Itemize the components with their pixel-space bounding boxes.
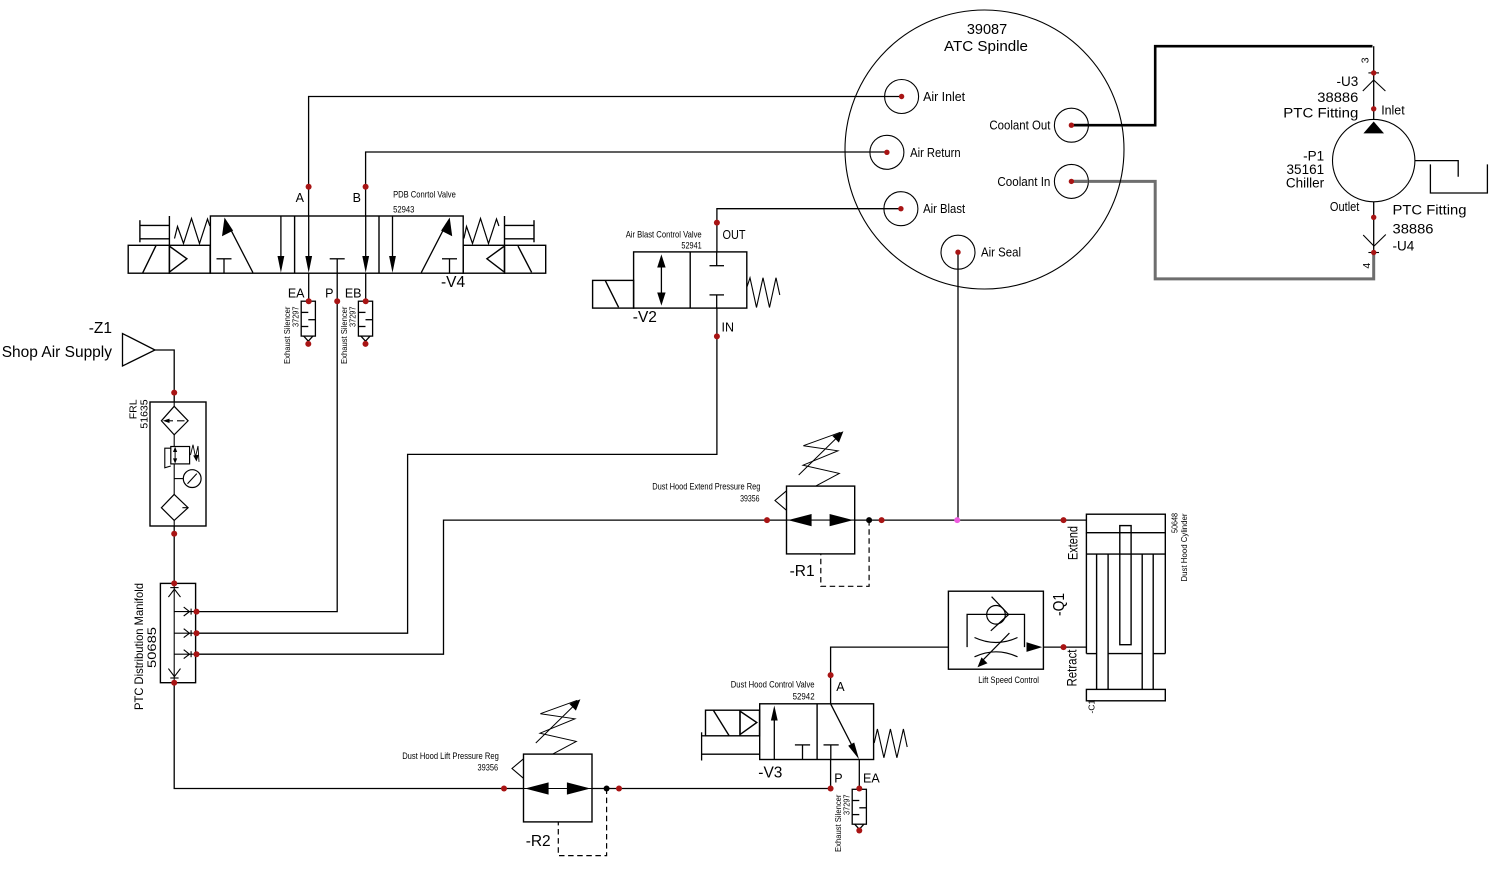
node cylinder Retract <box>1061 644 1067 650</box>
svg-text:Dust Hood Control Valve: Dust Hood Control Valve <box>731 680 815 691</box>
junction dot R2 pilot tap (black) <box>604 786 610 792</box>
valve -V4 right spring <box>464 219 499 244</box>
wire R1 outlet to cylinder Extend port <box>855 519 1087 521</box>
cylinder inner sleeve bottom <box>1108 653 1142 655</box>
wire R1 pilot dashed feedback <box>821 520 869 586</box>
svg-text:P: P <box>834 772 842 786</box>
node Coolant In port <box>1069 179 1074 184</box>
cylinder hood plate -C1 <box>1086 689 1165 700</box>
ATC spindle circle 39087 <box>845 10 1124 289</box>
valve -V4 left box flow paths <box>217 216 285 273</box>
chiller right heat exchanger <box>1415 161 1488 193</box>
cylinder guide legs <box>1096 554 1098 689</box>
svg-text:PTC Fitting: PTC Fitting <box>1283 106 1358 121</box>
svg-text:Inlet: Inlet <box>1381 104 1405 118</box>
label PTC Distribution Manifold 50685 <box>132 583 159 710</box>
valve -V4 right box flow paths <box>389 216 457 273</box>
node FRL outlet <box>171 531 177 537</box>
svg-text:ATC Spindle: ATC Spindle <box>944 39 1028 55</box>
node supply dot above FRL <box>171 390 177 396</box>
svg-text:EB: EB <box>345 287 362 301</box>
wire coolant out thick black: Coolant Out to chiller inlet <box>1071 46 1372 125</box>
node R1 outlet <box>879 517 885 523</box>
svg-text:P: P <box>325 287 333 301</box>
valve -V4 left manual override <box>140 216 170 245</box>
node EB silencer top <box>363 298 369 304</box>
wire Q1 to cylinder Retract port <box>1043 646 1086 648</box>
wire FRL to manifold <box>173 526 175 583</box>
wire V3 EA to silencer <box>858 760 860 790</box>
svg-text:-V3: -V3 <box>758 765 782 782</box>
svg-text:EA: EA <box>288 287 305 301</box>
svg-text:Shop Air Supply: Shop Air Supply <box>2 344 113 361</box>
dust hood cylinder 50648 <box>1086 514 1165 701</box>
valve -V4 left solenoid <box>128 245 210 273</box>
svg-text:Dust Hood Extend Pressure Reg: Dust Hood Extend Pressure Reg <box>652 482 760 493</box>
valve -V4 left spring <box>175 219 210 244</box>
svg-text:38886: 38886 <box>1317 90 1358 105</box>
svg-text:A: A <box>836 680 845 694</box>
wire V4 EB to silencer <box>365 273 367 301</box>
node A <box>306 184 312 190</box>
exhaust silencer EA of V4 (37297) <box>301 301 315 341</box>
svg-text:Retract: Retract <box>1065 649 1080 686</box>
PTC distribution manifold 50685 <box>160 583 195 682</box>
svg-text:EA: EA <box>863 772 880 786</box>
label FRL 51635 <box>128 399 151 428</box>
svg-text:3: 3 <box>1360 57 1372 63</box>
svg-text:Coolant In: Coolant In <box>997 175 1050 189</box>
FRL regulator <box>171 447 190 464</box>
node V2 IN <box>714 333 720 339</box>
node manifold branch 3 <box>194 651 200 657</box>
node V3 silencer exhaust <box>856 828 862 834</box>
svg-text:Outlet: Outlet <box>1330 200 1360 214</box>
node Air Return port <box>884 150 889 155</box>
FRL gauge <box>183 470 201 488</box>
node R1 inlet <box>764 517 770 523</box>
svg-text:Air Blast Control Valve: Air Blast Control Valve <box>626 230 702 241</box>
Q1 restrictor arcs <box>975 638 1018 643</box>
node R2 outlet <box>616 786 622 792</box>
valve -V4 center box flow paths <box>305 216 369 273</box>
svg-text:-U4: -U4 <box>1393 239 1415 254</box>
node chiller Inlet <box>1371 106 1376 111</box>
wire manifold bottom down and right to R2 inlet <box>174 683 523 789</box>
node manifold inlet <box>171 580 177 586</box>
svg-text:52941: 52941 <box>681 241 701 252</box>
chiller inlet solid triangle <box>1363 122 1384 134</box>
node Air Seal port <box>955 250 960 255</box>
svg-text:PTC Fitting: PTC Fitting <box>1393 203 1467 218</box>
svg-text:Dust Hood Cylinder: Dust Hood Cylinder <box>1179 513 1189 581</box>
spindle port Coolant In <box>1054 164 1088 198</box>
wire R2 pilot dashed feedback <box>558 789 606 856</box>
spindle port Air Seal <box>941 235 975 269</box>
node R2 inlet <box>501 786 507 792</box>
svg-text:50648: 50648 <box>1170 513 1180 533</box>
node manifold branch 1 <box>194 609 200 615</box>
wire A: V4 port A up and right to Air Inlet <box>309 97 902 217</box>
svg-text:37297: 37297 <box>291 306 301 327</box>
node B <box>363 184 369 190</box>
node V2 OUT <box>714 220 720 226</box>
svg-text:PTC Distribution Manifold: PTC Distribution Manifold <box>132 583 146 710</box>
wire chiller inlet stub <box>1373 46 1375 119</box>
junction dot R1 pilot tap (black) <box>866 517 872 523</box>
wire Air Seal down to Extend line <box>957 252 959 520</box>
chiller -P1 35161 circle <box>1333 119 1415 201</box>
valve -V2 solenoid <box>593 280 634 308</box>
exhaust silencer EA of V3 (37297) <box>852 789 866 829</box>
regulator -R1 adjustment spring <box>799 431 844 486</box>
valve -V4 right solenoid <box>463 245 546 273</box>
node EA silencer exhaust <box>305 341 311 347</box>
svg-text:Air Return: Air Return <box>910 146 961 160</box>
svg-text:37297: 37297 <box>348 306 358 327</box>
cylinder piston rod <box>1120 526 1131 645</box>
wire B: V4 port B up and right to Air Return <box>366 152 887 216</box>
Q1 flow arrow <box>1027 642 1043 652</box>
spindle port Air Return <box>870 135 904 169</box>
valve -V2 right box blocked ports <box>710 252 725 308</box>
PTC fitting -U4 chevron <box>1363 235 1386 253</box>
node Coolant Out port <box>1069 123 1074 128</box>
svg-text:52942: 52942 <box>793 692 815 703</box>
manifold top check symbol <box>170 587 178 589</box>
svg-text:51635: 51635 <box>139 399 151 428</box>
PTC fitting -U3 chevron <box>1363 73 1386 91</box>
svg-text:-V2: -V2 <box>633 309 657 326</box>
svg-text:39087: 39087 <box>967 22 1007 38</box>
node chiller Outlet <box>1371 215 1376 220</box>
wire R2 outlet to V3 port P <box>592 760 831 789</box>
node cylinder Extend <box>1061 517 1067 523</box>
valve -V4 right manual override <box>505 216 535 245</box>
valve -V2 Air Blast Control Valve 2/2 body <box>634 252 747 308</box>
flow control -Q1 Lift Speed Control <box>948 591 1043 669</box>
valve -V3 right box flow path <box>824 704 860 760</box>
svg-text:Air Inlet: Air Inlet <box>923 90 966 104</box>
wire chiller outlet stub <box>1373 202 1375 253</box>
svg-text:Chiller: Chiller <box>1286 176 1325 191</box>
node EA silencer top <box>306 298 312 304</box>
node V3 P <box>828 786 834 792</box>
svg-text:4: 4 <box>1361 263 1373 269</box>
spindle port Air Blast <box>884 192 918 226</box>
wire manifold branch 3 to R1 inlet <box>196 520 787 654</box>
manifold bottom check symbol <box>168 669 180 677</box>
svg-text:-C1: -C1 <box>1087 700 1097 714</box>
label exhaust silencer EB 37297 <box>339 306 358 364</box>
node U3 pipe 3 <box>1371 70 1376 75</box>
label exhaust silencer EA 37297 <box>282 306 301 364</box>
node Air Inlet port <box>899 94 904 99</box>
svg-text:IN: IN <box>722 321 735 335</box>
FRL filter diamond <box>161 406 188 435</box>
svg-text:-Z1: -Z1 <box>89 320 112 337</box>
valve -V2 left box flow path (double arrow) <box>657 254 665 305</box>
svg-text:-V4: -V4 <box>441 274 466 291</box>
valve -V4 PDB Control Valve 5/3 body <box>210 216 463 273</box>
Q1 check valve <box>987 606 1006 625</box>
wire V4 EA to silencer <box>308 273 310 301</box>
svg-text:Extend: Extend <box>1066 526 1081 560</box>
Q1 adjustment arrow <box>980 633 1010 664</box>
label V3 exhaust silencer 37297 <box>833 794 852 852</box>
node V3 A <box>828 672 834 678</box>
svg-text:39356: 39356 <box>740 494 759 505</box>
svg-text:-Q1: -Q1 <box>1051 593 1068 616</box>
svg-text:37297: 37297 <box>842 794 852 815</box>
svg-text:-U3: -U3 <box>1337 74 1359 89</box>
wire coolant return thick gray: chiller outlet to Coolant In <box>1071 181 1373 279</box>
svg-text:52943: 52943 <box>393 205 414 216</box>
valve -V2 return spring <box>747 278 780 308</box>
valve -V3 manual override <box>702 732 760 760</box>
air supply -Z1 triangle <box>123 334 156 367</box>
node manifold bottom outlet <box>171 680 177 686</box>
svg-text:Coolant Out: Coolant Out <box>989 119 1050 133</box>
node air seal tap (pink) <box>954 517 960 523</box>
node EB silencer exhaust <box>363 341 369 347</box>
svg-text:39356: 39356 <box>478 763 499 774</box>
wire manifold branch 2 to V2 IN <box>196 308 717 633</box>
svg-text:-R1: -R1 <box>790 563 815 580</box>
spindle port Air Inlet <box>885 80 919 114</box>
node manifold branch 2 <box>194 630 200 636</box>
svg-text:Air Seal: Air Seal <box>981 246 1021 260</box>
regulator -R2 adjustment spring <box>536 699 581 754</box>
wire V3 port A up to Q1 <box>831 647 949 704</box>
valve -V3 solenoid <box>706 710 760 736</box>
regulator -R2 Dust Hood Lift Pressure Reg 39356 <box>512 754 592 822</box>
svg-text:OUT: OUT <box>723 228 746 242</box>
valve -V3 Dust Hood Control Valve 3/2 body <box>760 704 874 760</box>
svg-text:Air Blast: Air Blast <box>923 202 965 216</box>
svg-text:Lift Speed Control: Lift Speed Control <box>978 675 1039 686</box>
valve -V3 left box flow path <box>771 706 810 760</box>
connection dots (red) <box>171 70 1376 833</box>
node U4 pipe 4 <box>1371 250 1376 255</box>
svg-text:50685: 50685 <box>145 627 159 668</box>
regulator -R1 Dust Hood Extend Pressure Reg 39356 <box>775 486 855 554</box>
spindle port Coolant Out <box>1054 108 1088 142</box>
manifold branch outlets <box>174 611 195 613</box>
svg-text:B: B <box>353 191 361 205</box>
wire V4 port P down to manifold branch 1 <box>196 273 337 611</box>
FRL lubricator diamond <box>161 494 188 520</box>
node P stub <box>334 298 340 304</box>
svg-text:Dust Hood Lift Pressure Reg: Dust Hood Lift Pressure Reg <box>402 751 499 762</box>
svg-text:A: A <box>296 191 305 205</box>
exhaust silencer EB of V4 (37297) <box>358 301 372 341</box>
node Air Blast port <box>898 206 903 211</box>
FRL 51635 <box>150 402 206 526</box>
wire supply: Z1 triangle to FRL <box>155 350 174 402</box>
node V3 EA <box>856 786 862 792</box>
svg-text:PDB Conrtol Valve: PDB Conrtol Valve <box>393 190 456 201</box>
wire V2 OUT to Air Blast <box>717 209 901 252</box>
valve -V3 return spring <box>874 729 907 758</box>
svg-text:-R2: -R2 <box>526 833 551 850</box>
svg-text:38886: 38886 <box>1393 222 1434 237</box>
